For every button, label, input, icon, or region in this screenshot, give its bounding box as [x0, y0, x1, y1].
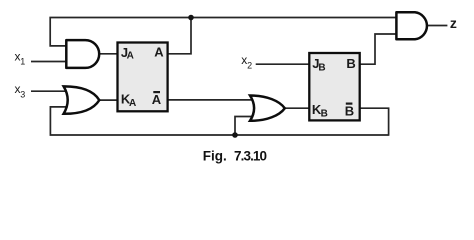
- AND gate AND1 (drives JA): [66, 40, 99, 68]
- svg-text:B: B: [345, 104, 354, 119]
- junction dot on top bus at node A: [188, 15, 194, 21]
- svg-text:3: 3: [20, 89, 25, 99]
- wire: x3 input to OR1 upper input: [31, 90, 67, 92]
- wire: bottom feedback bus up to OR1 lower input: [50, 107, 388, 135]
- svg-text:B: B: [321, 108, 328, 119]
- svg-text:2: 2: [247, 60, 252, 70]
- wire: OR2 output to KB: [282, 107, 309, 109]
- svg-text:A: A: [127, 50, 134, 61]
- wire: A output up to top bus: [168, 18, 191, 54]
- wire: x1 input to AND1 lower input: [31, 61, 67, 63]
- svg-text:7.3.10: 7.3.10: [234, 149, 267, 164]
- wire: AND1 output to JA: [97, 53, 117, 55]
- svg-text:B: B: [318, 63, 325, 74]
- wire: OR1 output to KA: [97, 99, 118, 101]
- svg-text:B: B: [346, 56, 355, 71]
- svg-text:A: A: [154, 44, 164, 59]
- wire: A-bar output to OR2 upper input: [168, 99, 253, 101]
- JK flip-flop A body: [118, 43, 168, 112]
- wire: B output up to AND2 lower input: [360, 34, 397, 64]
- svg-text:Fig.: Fig.: [203, 149, 227, 164]
- OR gate OR2 (drives KB): [250, 95, 285, 120]
- wire: B-bar output down to bottom bus: [360, 108, 389, 136]
- AND gate AND2 (drives z): [396, 12, 427, 39]
- wire: bottom bus riser to OR2 lower input: [235, 117, 253, 136]
- svg-text:A: A: [152, 92, 162, 107]
- svg-text:z: z: [450, 15, 457, 31]
- wire: AND2 output to z: [428, 25, 447, 27]
- wire: top feedback bus to AND2 upper input: [50, 18, 396, 46]
- svg-text:A: A: [129, 98, 136, 109]
- junction dot on bottom bus: [232, 132, 238, 138]
- svg-text:1: 1: [20, 57, 25, 67]
- JK flip-flop B body: [309, 53, 359, 120]
- wire: x2 input to JB: [256, 63, 310, 65]
- OR gate OR1 (drives KA): [64, 86, 100, 113]
